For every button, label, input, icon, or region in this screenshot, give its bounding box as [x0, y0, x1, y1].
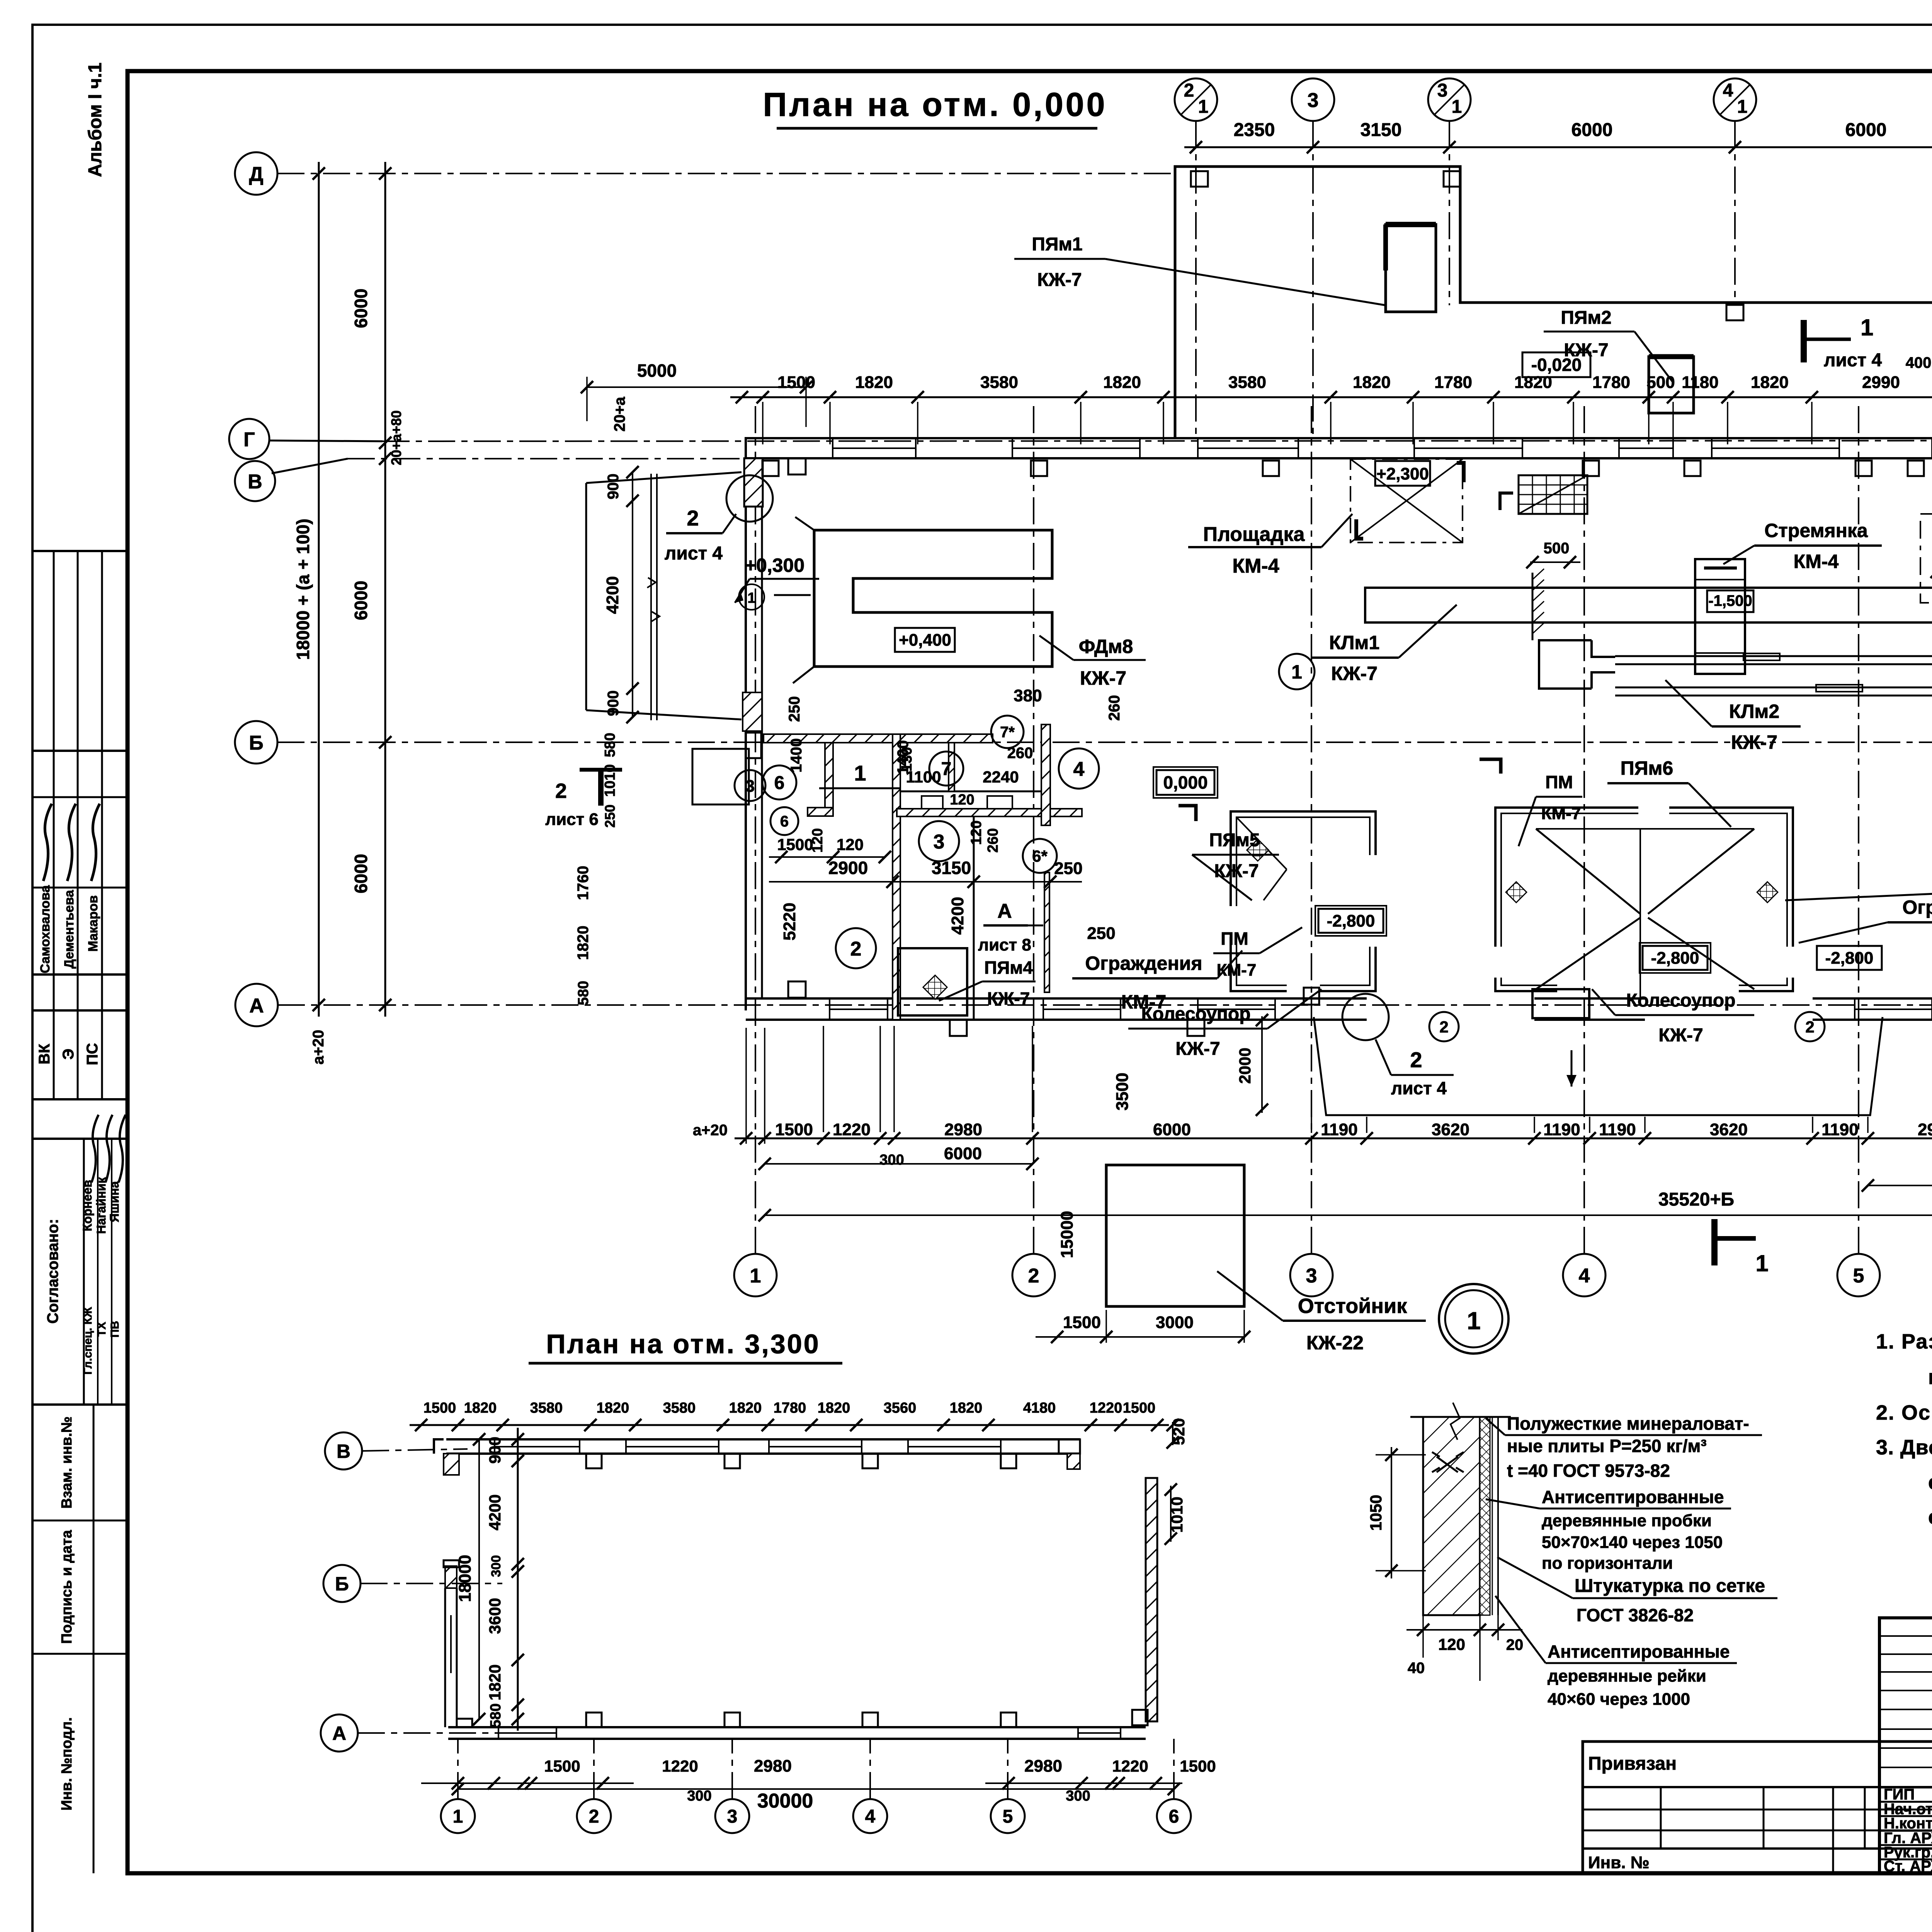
- svg-text:2: 2: [1439, 1018, 1448, 1036]
- svg-text:1820: 1820: [486, 1664, 504, 1700]
- svg-text:2900: 2900: [828, 858, 868, 878]
- svg-text:КЖ-7: КЖ-7: [1731, 731, 1777, 753]
- svg-text:1: 1: [854, 761, 866, 785]
- left strip table horizontal lines: [32, 550, 128, 552]
- svg-text:3: 3: [745, 777, 755, 796]
- svg-text:3620: 3620: [1710, 1120, 1748, 1139]
- axis В line: [348, 458, 1932, 459]
- svg-text:2: 2: [850, 938, 862, 960]
- svg-text:5: 5: [1853, 1265, 1864, 1287]
- column squares below north band: [762, 461, 779, 476]
- svg-text:Инв. №подл.: Инв. №подл.: [59, 1717, 75, 1811]
- svg-text:2990: 2990: [1862, 373, 1900, 392]
- svg-text:Инв. №: Инв. №: [1588, 1853, 1650, 1872]
- annex corner squares: [1191, 171, 1208, 187]
- svg-text:250: 250: [786, 696, 803, 722]
- conveyor КЛм1: [1365, 588, 1932, 622]
- svg-text:1820: 1820: [950, 1400, 983, 1416]
- svg-text:2: 2: [1184, 80, 1194, 101]
- svg-text:900: 900: [486, 1437, 504, 1464]
- Отстойник square: [1106, 1165, 1244, 1306]
- svg-text:a+20: a+20: [693, 1122, 728, 1139]
- south wall band А right: [1813, 997, 1932, 1000]
- bay exit arrow: [1571, 1050, 1573, 1087]
- svg-text:лист 6: лист 6: [545, 810, 599, 829]
- svg-text:3: 3: [1306, 1265, 1317, 1287]
- svg-text:1400: 1400: [788, 738, 805, 773]
- svg-text:300: 300: [489, 1555, 503, 1577]
- bottom 6000 row: [765, 1163, 1032, 1165]
- small plan bottom wall: [448, 1726, 1146, 1728]
- level box -2,800 (2): [1643, 946, 1708, 970]
- axis 4/1 top circle: [1714, 78, 1756, 121]
- svg-text:Корнеев: Корнеев: [80, 1180, 94, 1231]
- svg-text:1. Размер „Л” при устройстве: 1. Размер „Л” при устройстве колесоотбой…: [1876, 1330, 1932, 1353]
- pit ПЯм2 box: [1649, 357, 1694, 413]
- svg-text:КМ-7: КМ-7: [1541, 804, 1581, 823]
- svg-text:3600: 3600: [486, 1598, 504, 1634]
- axis Г leader bend: [269, 440, 383, 441]
- svg-text:580: 580: [575, 981, 592, 1005]
- small plan right wall: [1146, 1478, 1157, 1721]
- svg-text:-2,800: -2,800: [1825, 949, 1874, 968]
- south wall band А: [746, 997, 1367, 1000]
- ПЯм5 enclosure walls: [1231, 811, 1376, 991]
- svg-text:Антисептированные: Антисептированные: [1542, 1487, 1724, 1507]
- svg-text:3150: 3150: [1361, 120, 1402, 140]
- svg-text:4: 4: [1073, 758, 1085, 781]
- svg-text:ПВ: ПВ: [109, 1321, 121, 1337]
- apron below bays: [1314, 1017, 1883, 1115]
- svg-text:3: 3: [727, 1806, 738, 1827]
- axis 3/1 top line: [1449, 121, 1450, 305]
- svg-text:4: 4: [1723, 80, 1733, 101]
- svg-text:Колесоупор: Колесоупор: [1141, 1004, 1250, 1024]
- svg-text:3580: 3580: [530, 1400, 563, 1416]
- svg-text:КЖ-7: КЖ-7: [987, 988, 1030, 1009]
- svg-text:Яшина: Яшина: [107, 1181, 121, 1223]
- svg-text:1820: 1820: [1751, 373, 1789, 392]
- svg-text:1500: 1500: [423, 1400, 456, 1416]
- svg-text:КМ-7: КМ-7: [1217, 961, 1257, 980]
- svg-text:3500: 3500: [1113, 1073, 1132, 1111]
- svg-text:Антисептированные: Антисептированные: [1548, 1641, 1730, 1662]
- svg-text:6*: 6*: [1032, 847, 1048, 865]
- svg-text:6: 6: [780, 813, 789, 830]
- svg-text:3620: 3620: [1432, 1120, 1469, 1139]
- dim 500 at break: [1530, 561, 1580, 563]
- small plan axis 6 circle: [1157, 1799, 1191, 1833]
- svg-text:Д: Д: [249, 163, 263, 185]
- svg-text:7: 7: [941, 759, 952, 779]
- svg-text:ВК: ВК: [36, 1044, 53, 1065]
- stremyanka box: [1695, 559, 1745, 674]
- svg-text:6: 6: [1169, 1806, 1179, 1827]
- level box +2,300: [1375, 461, 1430, 486]
- svg-text:300: 300: [1066, 1788, 1090, 1804]
- cluster dim lines: [769, 856, 885, 858]
- axis В leader bend: [272, 459, 348, 473]
- svg-text:3580: 3580: [1228, 373, 1266, 392]
- svg-text:КМ-4: КМ-4: [1232, 555, 1279, 577]
- axis Г line: [383, 440, 1932, 441]
- svg-text:1: 1: [1467, 1307, 1481, 1335]
- svg-text:260: 260: [985, 828, 1001, 852]
- svg-text:+0,300: +0,300: [745, 554, 804, 576]
- small plan axis 5 circle: [991, 1799, 1025, 1833]
- small plan top right end: [1059, 1439, 1080, 1454]
- detail bottom dims: [1406, 1629, 1522, 1631]
- svg-text:6000: 6000: [351, 289, 371, 328]
- svg-text:габаритам кормораздатчика.: габаритам кормораздатчика.: [1928, 1366, 1932, 1389]
- small plan top wall: [446, 1438, 1080, 1440]
- svg-text:1: 1: [750, 1265, 761, 1287]
- svg-text:КЖ-22: КЖ-22: [1306, 1332, 1364, 1354]
- small plan axis lines left: [362, 1449, 468, 1451]
- svg-text:ПЯм6: ПЯм6: [1621, 757, 1673, 779]
- svg-text:40×60 через 1000: 40×60 через 1000: [1548, 1690, 1690, 1709]
- svg-text:300: 300: [687, 1788, 711, 1804]
- axis 3 line: [1311, 406, 1312, 1254]
- svg-text:40: 40: [1408, 1660, 1425, 1677]
- soglasovano block verticals: [83, 1139, 85, 1405]
- west wall hatched pier: [744, 458, 763, 507]
- svg-text:Согласовано:: Согласовано:: [44, 1219, 61, 1324]
- svg-text:400: 400: [1906, 354, 1932, 371]
- axis 3 top line: [1312, 121, 1314, 438]
- column squares below А wall: [950, 1020, 967, 1036]
- room circles: [762, 765, 796, 799]
- svg-text:ФДм8: ФДм8: [1079, 636, 1133, 657]
- svg-text:3000: 3000: [1156, 1313, 1194, 1332]
- svg-text:6000: 6000: [1153, 1120, 1191, 1139]
- svg-text:Э: Э: [60, 1049, 77, 1060]
- svg-text:1500: 1500: [775, 1120, 813, 1139]
- axis Д line: [277, 173, 1175, 174]
- svg-text:900: 900: [605, 690, 622, 716]
- svg-text:Альбом I ч.1: Альбом I ч.1: [85, 63, 105, 177]
- soglasovano squiggles: [92, 1115, 99, 1182]
- svg-text:15000: 15000: [1058, 1211, 1077, 1258]
- svg-text:6000: 6000: [1845, 120, 1887, 140]
- axis Б line: [277, 742, 1932, 743]
- bay circles 2: [1429, 1012, 1459, 1041]
- svg-text:580: 580: [602, 733, 618, 757]
- svg-text:КЖ-7: КЖ-7: [1214, 861, 1259, 881]
- west wall: [745, 437, 747, 1010]
- svg-text:1190: 1190: [1821, 1120, 1858, 1139]
- svg-text:1: 1: [747, 590, 755, 606]
- svg-text:1820: 1820: [597, 1400, 629, 1416]
- svg-text:сторон и оборудовать приборами: сторон и оборудовать приборами для самоз…: [1928, 1505, 1932, 1529]
- svg-text:20+a+80: 20+a+80: [388, 410, 404, 465]
- svg-text:2. Основные примечания см. на: 2. Основные примечания см. на листах 2, …: [1876, 1401, 1932, 1424]
- svg-text:250: 250: [602, 804, 618, 828]
- svg-text:3. Двери в помещениях 3 и 4: 3. Двери в помещениях 3 и 4 , обозначенн…: [1876, 1436, 1932, 1459]
- svg-text:КЖ-7: КЖ-7: [1658, 1025, 1703, 1046]
- Отстойник dims: [1036, 1336, 1244, 1338]
- svg-text:5: 5: [1003, 1806, 1013, 1827]
- svg-text:4200: 4200: [603, 576, 622, 614]
- west wall pilasters: [743, 692, 762, 731]
- small plan axis circles left: [325, 1432, 362, 1469]
- svg-text:1050: 1050: [1367, 1495, 1385, 1531]
- bottom total row: [765, 1214, 1932, 1216]
- partition room1 elbow: [808, 808, 833, 816]
- partition room7 right: [949, 743, 954, 791]
- svg-text:2980: 2980: [944, 1120, 982, 1139]
- ПЯм5 inner pit lines: [1236, 817, 1287, 869]
- svg-text:по горизонтали: по горизонтали: [1542, 1554, 1673, 1573]
- small plan 18000 dim: [478, 1439, 480, 1719]
- small plan bottom sub chain: [421, 1782, 634, 1784]
- svg-text:КЛм1: КЛм1: [1329, 632, 1379, 653]
- svg-text:1500: 1500: [1180, 1757, 1216, 1775]
- small plan bottom columns: [586, 1713, 602, 1727]
- svg-text:Полужесткие минераловат-: Полужесткие минераловат-: [1507, 1413, 1749, 1434]
- svg-text:1010: 1010: [602, 764, 618, 797]
- svg-text:1820: 1820: [1103, 373, 1141, 392]
- stairs symbol: [1519, 475, 1587, 514]
- svg-text:1: 1: [1291, 661, 1302, 683]
- partition right lower: [1044, 872, 1049, 992]
- axis 2/1 top circle: [1175, 78, 1217, 121]
- small plan axis 4 circle: [853, 1799, 887, 1833]
- svg-text:1780: 1780: [1434, 373, 1472, 392]
- axis Б circle: [235, 721, 277, 764]
- svg-text:2350: 2350: [1234, 120, 1275, 140]
- svg-text:ПМ: ПМ: [1221, 929, 1248, 949]
- west ramp dims: [632, 472, 633, 717]
- svg-text:Подпись и дата: Подпись и дата: [59, 1530, 75, 1644]
- svg-text:3: 3: [1308, 89, 1319, 112]
- bottom dim chain: [735, 1138, 1932, 1139]
- svg-text:План на отм. 3,300: План на отм. 3,300: [546, 1329, 820, 1359]
- svg-text:1190: 1190: [1599, 1120, 1636, 1139]
- svg-text:А: А: [997, 900, 1012, 922]
- svg-text:КЛм2: КЛм2: [1729, 701, 1779, 722]
- svg-text:Площадка: Площадка: [1203, 523, 1305, 546]
- svg-text:4: 4: [865, 1806, 876, 1827]
- svg-text:КЖ-7: КЖ-7: [1080, 667, 1126, 689]
- svg-text:35520+Б: 35520+Б: [1658, 1189, 1734, 1210]
- left dim line 18000: [318, 162, 320, 1017]
- svg-text:Б: Б: [249, 732, 263, 754]
- detail circle 2 list 4 at west corner: [726, 475, 773, 522]
- svg-text:КЖ-7: КЖ-7: [1331, 663, 1378, 684]
- small plan top dim chain: [410, 1424, 1169, 1426]
- small axis 1 stub circle: [739, 584, 764, 610]
- detail arrows in wall: [1432, 1452, 1464, 1472]
- axis 3 circle: [1290, 1254, 1333, 1296]
- small plan bottom left pilaster: [457, 1719, 472, 1727]
- level box -0,020 top: [1522, 352, 1590, 377]
- axis 1 line: [755, 406, 756, 1254]
- south wall band А mid: [1534, 997, 1645, 1000]
- svg-text:Ст. АРХ.: Ст. АРХ.: [1884, 1858, 1932, 1875]
- svg-text:КЖ-7: КЖ-7: [1037, 270, 1082, 290]
- left dim 5000: [587, 386, 806, 388]
- axis 4 line: [1583, 406, 1585, 1254]
- svg-text:1220: 1220: [1112, 1757, 1148, 1775]
- svg-text:1820: 1820: [1353, 373, 1391, 392]
- svg-text:1: 1: [1755, 1250, 1768, 1276]
- svg-text:1: 1: [1198, 97, 1209, 117]
- small plan axis 3 circle: [715, 1799, 749, 1833]
- svg-text:1: 1: [453, 1806, 463, 1827]
- svg-text:a+20: a+20: [310, 1030, 327, 1065]
- signature squiggles block1: [43, 804, 52, 881]
- svg-text:лист 8: лист 8: [978, 935, 1031, 954]
- svg-text:деревянные пробки: деревянные пробки: [1542, 1511, 1712, 1530]
- svg-text:лист 4: лист 4: [665, 543, 723, 564]
- svg-text:500: 500: [1646, 373, 1675, 392]
- level box +0,400: [895, 628, 955, 652]
- svg-text:1780: 1780: [774, 1400, 806, 1416]
- svg-text:Привязан: Привязан: [1588, 1753, 1677, 1774]
- svg-text:30000: 30000: [757, 1790, 813, 1812]
- north wall band: [746, 437, 1932, 439]
- svg-text:-2,800: -2,800: [1327, 912, 1375, 930]
- svg-text:6000: 6000: [944, 1144, 982, 1163]
- svg-text:1820: 1820: [818, 1400, 850, 1416]
- svg-text:ПЯм2: ПЯм2: [1561, 308, 1611, 328]
- svg-text:1190: 1190: [1543, 1120, 1580, 1139]
- svg-text:Самохвалова: Самохвалова: [38, 885, 53, 973]
- svg-text:1500: 1500: [1063, 1313, 1101, 1332]
- partition wall top: [764, 734, 993, 743]
- svg-text:900: 900: [605, 474, 622, 500]
- bottom chain extensions: [745, 1028, 747, 1144]
- small plan 30000 dim: [458, 1788, 1174, 1790]
- svg-text:6000: 6000: [1571, 120, 1613, 140]
- svg-text:500: 500: [1544, 540, 1570, 557]
- svg-text:2000: 2000: [1236, 1048, 1254, 1083]
- svg-text:250: 250: [1087, 924, 1115, 943]
- west ramp outline: [585, 483, 587, 710]
- dim 2000 vertical at bay: [1261, 1016, 1263, 1113]
- svg-text:1: 1: [1452, 97, 1462, 117]
- svg-text:3560: 3560: [884, 1400, 917, 1416]
- room7 floor line: [900, 791, 1043, 793]
- detail top break: [1410, 1416, 1511, 1418]
- svg-text:4: 4: [1579, 1265, 1590, 1287]
- svg-text:1820: 1820: [464, 1400, 497, 1416]
- svg-text:1: 1: [1737, 97, 1748, 117]
- axis 1 circle: [734, 1254, 777, 1296]
- svg-text:120: 120: [968, 820, 985, 845]
- svg-text:Макаров: Макаров: [86, 895, 100, 952]
- svg-text:2980: 2980: [1918, 1120, 1932, 1139]
- pit Площадка with X: [1350, 459, 1463, 543]
- main table person rows: [1879, 1787, 1932, 1789]
- svg-text:КМ-4: КМ-4: [1794, 551, 1839, 572]
- svg-text:20+a: 20+a: [611, 396, 628, 432]
- level box -2,800 (1): [1318, 909, 1383, 933]
- svg-text:2980: 2980: [754, 1757, 792, 1776]
- section mark 1 bottom: [1711, 1219, 1718, 1265]
- axis 5 circle: [1837, 1254, 1880, 1296]
- svg-text:18000: 18000: [456, 1555, 474, 1602]
- detail circle 2 list 4 at bay: [1342, 994, 1389, 1040]
- axis 3 top circle: [1292, 78, 1334, 121]
- small plan top wall left block: [444, 1454, 459, 1475]
- node circle 1: [1439, 1284, 1509, 1354]
- small plan axis 1 circle: [441, 1799, 475, 1833]
- axis А circle: [235, 984, 278, 1026]
- svg-text:1220: 1220: [833, 1120, 871, 1139]
- svg-text:1180: 1180: [1682, 373, 1718, 392]
- svg-text:2240: 2240: [983, 768, 1019, 786]
- detail wall brick hatch: [1423, 1417, 1480, 1615]
- svg-text:50×70×140 через 1050: 50×70×140 через 1050: [1542, 1533, 1723, 1552]
- svg-text:120: 120: [950, 792, 974, 808]
- svg-text:Ограждения: Ограждения: [1902, 896, 1932, 918]
- small plan axis 2 circle: [577, 1799, 611, 1833]
- axis 2 circle: [1012, 1254, 1055, 1296]
- detail wool layer: [1480, 1417, 1490, 1615]
- svg-text:2: 2: [687, 506, 699, 530]
- svg-text:7*: 7*: [1000, 724, 1015, 741]
- axis 2/1 top line: [1195, 121, 1197, 438]
- svg-text:1400: 1400: [895, 740, 912, 775]
- mark 2 list 6: [598, 769, 604, 806]
- svg-text:20: 20: [1506, 1636, 1524, 1653]
- svg-text:1820: 1820: [729, 1400, 762, 1416]
- svg-text:300: 300: [879, 1152, 904, 1168]
- svg-text:Дементьева: Дементьева: [62, 889, 77, 969]
- svg-text:Гл.спец. КЖ: Гл.спец. КЖ: [82, 1307, 94, 1375]
- svg-text:Нагайник: Нагайник: [94, 1177, 108, 1234]
- central partition: [893, 734, 900, 1020]
- ПЯм6 enclosure walls: [1495, 808, 1793, 991]
- svg-text:ПМ: ПМ: [1545, 772, 1573, 792]
- svg-text:580: 580: [488, 1703, 504, 1728]
- svg-text:1: 1: [1861, 315, 1873, 340]
- annex outline: [1175, 167, 1932, 438]
- main table upper rows: [1879, 1635, 1932, 1637]
- svg-text:-1,500: -1,500: [1708, 592, 1752, 609]
- svg-text:ПЯм1: ПЯм1: [1032, 234, 1082, 255]
- svg-text:0,000: 0,000: [1163, 772, 1207, 793]
- small plan left wall: [445, 1566, 457, 1588]
- svg-text:Г: Г: [243, 429, 255, 451]
- svg-text:2: 2: [555, 779, 567, 803]
- svg-text:ТХ: ТХ: [95, 1322, 108, 1337]
- corner mark near ПЯм6: [1480, 759, 1501, 774]
- pit ПЯм1 box: [1386, 224, 1436, 312]
- svg-text:5220: 5220: [780, 903, 799, 940]
- svg-text:1220: 1220: [662, 1757, 698, 1775]
- partition wall room1 left: [825, 743, 833, 816]
- svg-text:3: 3: [1437, 80, 1448, 101]
- svg-text:А: А: [332, 1723, 346, 1744]
- svg-text:+0,400: +0,400: [899, 631, 951, 650]
- small plan left dim chain: [517, 1428, 519, 1731]
- svg-text:1820: 1820: [575, 926, 592, 960]
- svg-text:6000: 6000: [351, 581, 371, 620]
- axis А line: [278, 1004, 1932, 1006]
- svg-text:1220: 1220: [1090, 1400, 1122, 1416]
- svg-text:2: 2: [1028, 1265, 1039, 1287]
- svg-text:деревянные рейки: деревянные рейки: [1548, 1667, 1706, 1685]
- detail plaster lines: [1492, 1417, 1493, 1615]
- svg-text:1500: 1500: [777, 835, 813, 854]
- axis 4/1 top line: [1734, 121, 1736, 305]
- circle 1 near КЛм1: [1279, 654, 1315, 689]
- svg-text:В: В: [248, 471, 262, 493]
- svg-text:1500: 1500: [777, 373, 815, 392]
